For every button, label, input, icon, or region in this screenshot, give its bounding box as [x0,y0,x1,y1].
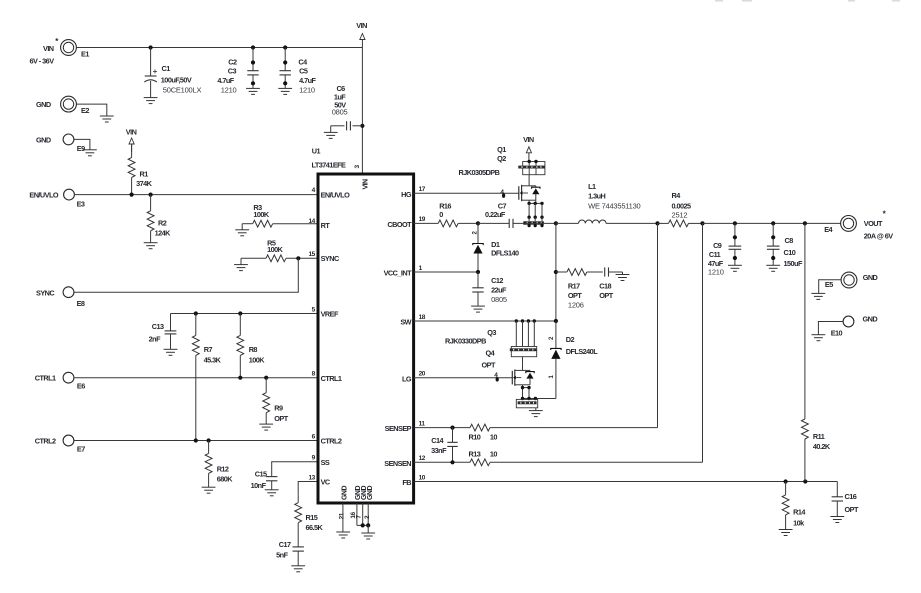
svg-text:GND: GND [863,273,878,282]
node R11 tap [803,221,807,225]
pin 4 gate marker Q4 [494,372,499,382]
svg-text:D2: D2 [566,335,575,344]
inductor L1 [556,220,658,223]
svg-text:SENSEP: SENSEP [385,424,412,433]
pin 19 CBOOT [387,216,425,229]
svg-text:RJK0305DPB: RJK0305DPB [459,168,500,177]
svg-text:1210: 1210 [221,85,237,94]
svg-text:12: 12 [419,455,426,462]
capacitor C13 [165,314,177,350]
node SYNC junction [296,256,300,260]
resistor R4 [658,220,703,227]
svg-text:10: 10 [490,432,498,441]
svg-text:VC: VC [321,478,331,487]
resistor R7 [192,314,199,441]
terminal E4 VOUT [824,216,856,234]
pin 18 SW [400,314,425,327]
wire Q1 source bundle [527,200,543,221]
svg-text:10k: 10k [793,518,805,527]
node C8 tap [771,221,775,225]
pin 14 RT [309,218,331,230]
pin 6 CTRL2 [312,433,342,445]
ground C1 [144,98,158,104]
label C1 [161,64,202,94]
svg-text:15: 15 [309,251,316,258]
svg-text:14: 14 [309,218,316,225]
label R8 [249,345,266,365]
svg-text:R17: R17 [568,281,580,290]
wire SENSEP up [657,223,659,427]
capacitor C16 [832,482,843,517]
svg-text:66.5K: 66.5K [306,523,324,532]
wire SYNC drop [74,258,298,292]
label GND E10 [863,314,878,323]
capacitor C2/C3 [247,48,258,89]
svg-text:E6: E6 [77,381,85,390]
capacitor C9/C11 [729,223,742,265]
svg-text:11: 11 [419,420,426,427]
pin 21 GND [338,486,348,520]
wire VIN rail [76,47,362,49]
svg-text:13: 13 [309,474,316,481]
svg-text:Q4: Q4 [486,349,496,358]
label R11 [813,432,831,451]
pin 7 GND [355,486,368,519]
capacitor C6 [331,121,363,132]
label C9 C11 [708,241,724,277]
wire E5 to ground [819,280,841,294]
label D1 [491,240,519,257]
svg-text:22uF: 22uF [491,286,507,295]
terminal E1 VIN [61,40,90,59]
pin 9 SS [312,455,330,467]
terminal E7 CTRL2 [63,435,85,453]
label C7 [485,201,507,219]
capacitor C14 [447,428,457,463]
svg-text:WE 7443551130: WE 7443551130 [588,201,640,210]
resistor R1 [128,144,135,195]
label C4 C5 [298,58,316,95]
svg-text:E1: E1 [81,49,89,58]
svg-text:DFLS240L: DFLS240L [566,347,598,356]
svg-text:VOUT: VOUT [864,219,883,228]
capacitor C15 [266,477,277,490]
ground E9 [83,150,97,156]
wire EN/UVLO rail [74,194,318,196]
ground C17 [291,566,305,572]
pin 5 VREF [312,306,339,318]
wire VCC_INT rail [414,271,478,273]
resistor R5 [241,255,318,265]
svg-text:R15: R15 [306,513,318,522]
node R8 top [238,311,242,315]
wire E9 to ground [74,139,90,149]
svg-text:R10: R10 [469,432,481,441]
label L1 [588,182,640,210]
pin 2 GND [364,486,374,519]
svg-text:21: 21 [338,512,345,519]
pin 20 LG [402,371,426,384]
ground C9/C11 [728,265,742,271]
svg-text:RT: RT [321,221,331,230]
terminal E5 GND [825,272,857,289]
diode D1 [472,223,483,272]
pin 1 VCC_INT [384,265,423,278]
ground R14 [779,530,793,536]
top-edge cropped text remnants [715,0,900,2]
svg-text:47uF: 47uF [708,259,724,268]
op-amp U1 LT3741EFE body [318,174,414,503]
label C6 [332,84,348,116]
svg-text:33nF: 33nF [431,446,447,455]
svg-text:R8: R8 [249,345,258,354]
node Q3 drains [515,319,536,322]
svg-text:0: 0 [439,210,443,219]
svg-text:U1: U1 [312,146,321,155]
svg-text:124K: 124K [155,228,172,237]
terminal E9 GND [63,134,85,153]
svg-text:Q2: Q2 [497,154,506,163]
wire Q4 source bundle [521,385,556,400]
terminal E6 CTRL1 [63,372,85,390]
transistor Q1 pad row on SW line [523,221,544,227]
svg-text:C17: C17 [279,540,291,549]
ground C2/C3 [246,88,260,94]
ground C8/C10 [766,265,780,271]
svg-text:GND: GND [36,100,51,109]
label R17 [568,281,584,309]
capacitor C17 [293,545,304,566]
pin 15 SYNC [309,251,340,263]
svg-text:2512: 2512 [672,211,688,220]
capacitor C1 (polarized) [144,48,157,98]
svg-text:6V - 36V: 6V - 36V [30,57,55,66]
svg-text:1210: 1210 [299,85,315,94]
ground C15 [265,490,279,496]
svg-text:150uF: 150uF [784,259,803,268]
svg-text:17: 17 [419,186,426,193]
svg-text:100K: 100K [267,245,284,254]
svg-text:VREF: VREF [321,310,339,319]
wire GND pins 16/7/2 [357,503,370,533]
node R14 tap [784,479,788,483]
svg-text:C7: C7 [498,201,507,210]
label GND E2 [36,100,51,109]
svg-text:FB: FB [402,478,411,487]
svg-text:10: 10 [490,450,498,459]
svg-text:VIN: VIN [126,127,137,136]
node C14 top [450,426,454,430]
svg-text:100uF,50V: 100uF,50V [161,75,192,84]
label R16 [439,201,451,219]
wire SW rail [414,320,556,322]
svg-text:SENSEN: SENSEN [384,459,411,468]
svg-text:VIN: VIN [43,44,54,53]
resistor R10 [470,424,658,431]
svg-text:SW: SW [400,318,411,327]
svg-text:OPT: OPT [568,291,582,300]
node R11 bottom [803,479,807,483]
transistor Q4 pad row [516,399,537,410]
label R4 [672,191,692,220]
terminal E3 EN/UVLO [64,189,85,208]
node C4 tap [283,45,287,49]
svg-text:C13: C13 [152,322,164,331]
node snubber tap [554,270,558,274]
svg-text:C15: C15 [255,470,267,479]
svg-text:R9: R9 [274,404,283,413]
ground R2 [144,243,158,249]
ground C16 [830,517,844,523]
svg-text:E5: E5 [825,280,833,289]
label VIN input [30,37,60,66]
pin 8 CTRL1 [312,371,342,383]
svg-text:C16: C16 [845,492,857,501]
svg-text:HG: HG [401,190,412,199]
node C12 top [476,270,480,274]
svg-text:R16: R16 [439,201,451,210]
node R12 top [207,438,211,442]
capacitor C8/C10 [767,223,780,265]
pin 4 EN/UVLO [312,187,350,200]
svg-text:10: 10 [419,474,426,481]
label C18 [599,281,613,300]
svg-text:OPT: OPT [845,505,859,514]
svg-text:SYNC: SYNC [321,254,340,263]
resistor R9 [263,378,270,424]
svg-text:VCC_INT: VCC_INT [384,269,412,278]
label C16 [845,492,859,514]
terminal E10 GND [831,316,854,337]
svg-text:10nF: 10nF [251,481,267,490]
resistor R17 [556,269,603,276]
svg-text:R13: R13 [469,450,481,459]
node D1 junction [476,221,480,225]
label C13 [149,322,164,344]
label Q1 Q2 [459,145,507,177]
svg-text:Q3: Q3 [487,328,496,337]
transistor Q4 mosfet [512,357,534,386]
resistor R11 [802,223,809,481]
wire E2 to ground [76,104,107,116]
ground R5 [234,265,248,271]
label R10 [469,432,498,441]
svg-text:100K: 100K [249,355,266,364]
node C9 tap [733,221,737,225]
resistor R2 [147,195,154,243]
label CTRL2 [35,436,56,445]
pin 10 FB [402,474,425,487]
pin 11 SENSEP [385,420,426,433]
node SW D2 junction [554,319,558,323]
svg-text:GND: GND [863,314,878,323]
svg-text:CTRL2: CTRL2 [35,436,56,445]
diode D2 [549,321,561,399]
label VOUT [864,210,894,241]
svg-text:L1: L1 [588,182,596,191]
svg-text:GND: GND [36,136,51,145]
svg-text:50CE100LX: 50CE100LX [163,85,202,94]
svg-text:OPT: OPT [599,291,613,300]
pin 3 VIN label [354,165,370,190]
svg-text:OPT: OPT [274,414,288,423]
svg-text:R14: R14 [793,508,806,517]
svg-text:C2: C2 [228,58,237,67]
svg-text:VIN: VIN [523,135,534,144]
node R7 top [194,311,198,315]
svg-text:C18: C18 [599,281,611,290]
node R2 junction [149,193,153,197]
pin 16 GND [350,486,362,519]
resistor R13 [470,459,703,466]
svg-text:0805: 0805 [332,107,348,116]
svg-text:680K: 680K [217,475,234,484]
label R3 [253,203,270,219]
label EN/UVLO [29,191,58,200]
svg-text:0.22uF: 0.22uF [485,210,506,219]
label SYNC [36,289,55,298]
node R8 bottom [238,376,242,380]
net VIN (mid-left arrow) [126,127,137,152]
ground C18 [616,275,630,281]
wire SENSEN rail [414,461,470,463]
label C8 C10 [784,236,803,268]
svg-text:100K: 100K [253,210,270,219]
terminal E8 SYNC [63,287,85,308]
label R9 [274,404,288,423]
label D2 [566,335,598,356]
svg-text:18: 18 [419,314,426,321]
svg-text:C10: C10 [784,248,796,257]
ground C12 [471,306,485,312]
label R13 [469,450,498,459]
svg-text:CTRL2: CTRL2 [321,437,342,446]
ground R12 [202,487,216,493]
wire CTRL1 rail [74,377,318,379]
svg-text:CTRL1: CTRL1 [35,374,56,383]
svg-text:C9: C9 [713,241,722,250]
svg-text:R12: R12 [217,464,229,473]
node R1 junction [130,193,134,197]
wire GND pin 21 [342,503,344,532]
svg-text:E2: E2 [81,106,89,115]
ground C4/C5 [278,88,292,94]
label R1 [136,169,153,188]
svg-text:C14: C14 [431,436,444,445]
capacitor C12 [472,272,483,306]
svg-text:GND: GND [367,486,374,500]
resistor R15 [295,494,302,545]
transistor Q1 package [518,160,545,175]
svg-text:VIN: VIN [362,179,369,190]
svg-text:EN/UVLO: EN/UVLO [29,191,58,200]
label R14 [793,508,806,528]
wire SENSEP rail [414,427,470,429]
node R7 bottom [194,438,198,442]
svg-text:C8: C8 [785,236,794,245]
ground E2 [100,116,114,122]
label Q3 Q4 [445,328,496,369]
node C14 bottom [450,460,454,464]
capacitor C7 [478,219,556,228]
svg-text:1210: 1210 [708,268,724,277]
label GND E5 [863,273,878,282]
pin 13 VC [309,474,331,486]
svg-text:LG: LG [402,374,412,383]
svg-text:R11: R11 [813,432,825,441]
label C2 C3 [217,58,237,95]
wire VC rail [298,482,318,495]
label U1 [312,146,347,169]
node C1 tap [149,45,153,49]
node C6 tap [360,124,364,128]
ground C13 [164,349,178,355]
ground R9 [259,424,273,430]
pin 17 HG [401,186,426,199]
wire SENSEN up [702,223,704,462]
node SW top [554,221,558,225]
resistor R14 [782,482,789,530]
svg-text:C12: C12 [491,276,503,285]
svg-text:SYNC: SYNC [36,289,55,298]
wire output rail [703,222,841,224]
wire VREF rail [171,313,319,315]
capacitor C18 [605,267,623,276]
svg-text:C11: C11 [709,250,721,259]
resistor R12 [205,441,212,488]
wire CBOOT stub [414,222,439,224]
svg-text:R7: R7 [204,345,213,354]
node sense right [700,221,704,225]
svg-text:19: 19 [419,216,426,223]
wire HG to gate [414,192,519,194]
wire CTRL2 rail [74,440,318,442]
svg-text:E7: E7 [77,444,85,453]
svg-text:DFLS140: DFLS140 [491,248,519,257]
label C17 [276,540,291,560]
svg-text:0.0025: 0.0025 [672,201,692,210]
svg-text:R2: R2 [158,218,167,227]
svg-text:VIN: VIN [356,21,367,30]
wire LG to gate [414,377,513,379]
svg-text:5nF: 5nF [276,551,288,560]
wire VIN rail down to pin 3 [361,48,363,175]
svg-text:C5: C5 [299,67,308,76]
label R15 [306,513,324,532]
wire E10 to ground [818,322,843,335]
svg-text:4.7uF: 4.7uF [299,76,316,85]
resistor R3 [242,220,318,230]
ground E10 [812,335,826,341]
svg-text:C1: C1 [162,64,171,73]
svg-text:SS: SS [321,458,330,467]
ground pin 21 [336,532,350,538]
ground C6 [324,132,338,138]
label C14 [431,436,447,455]
svg-text:CTRL1: CTRL1 [321,374,342,383]
net VIN (top arrow) [356,21,367,47]
svg-text:C3: C3 [228,67,237,76]
label C12 [491,276,507,304]
svg-text:Q1: Q1 [497,145,506,154]
ground Q4 [529,411,543,417]
svg-text:4.7uF: 4.7uF [217,76,234,85]
label R7 [204,345,222,365]
svg-text:R1: R1 [140,169,149,178]
label C15 [251,470,267,490]
svg-text:374K: 374K [136,179,153,188]
svg-text:1206: 1206 [568,300,584,309]
